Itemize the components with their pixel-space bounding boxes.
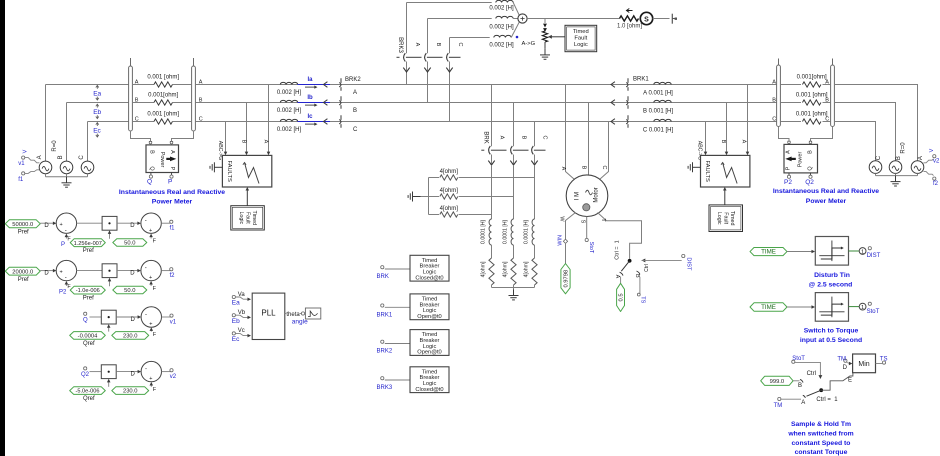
- svg-text:StoT: StoT: [867, 309, 880, 315]
- svg-text:1.256e-007: 1.256e-007: [74, 241, 102, 247]
- svg-text:Pref: Pref: [18, 229, 29, 235]
- svg-text:Switch to Torque: Switch to Torque: [804, 327, 859, 334]
- signal BRK1 to breaker logic: [381, 304, 384, 307]
- svg-text:D: D: [131, 317, 136, 323]
- output terminal f1: [161, 222, 170, 224]
- node label Eb: [96, 104, 98, 107]
- wire TIME to disturb comparator: [787, 251, 813, 253]
- svg-text:theta: theta: [286, 312, 300, 318]
- wire -1.0e oval to multiplier: [109, 281, 111, 287]
- divider circle (row2): [141, 260, 161, 280]
- bus line A (main): [195, 84, 777, 86]
- flow arrow down A (BRK): [488, 161, 494, 165]
- flow arrow down B (BRK): [510, 161, 516, 165]
- svg-text:Disturb Tin: Disturb Tin: [814, 272, 850, 279]
- svg-text:A: A: [741, 140, 747, 144]
- flow arrowhead A at BRK1: [611, 82, 615, 88]
- PLL input Vc: [232, 332, 235, 335]
- wire: node to fault branch and 1 ohm resistor: [527, 18, 619, 20]
- svg-text:Closed@t0: Closed@t0: [415, 275, 443, 281]
- switch junction dot (sample hold): [819, 388, 823, 392]
- output circle 1 (disturb): [849, 250, 860, 252]
- wire: BRK3 phase C vertical: [449, 38, 451, 54]
- ground (fault branch): [544, 49, 546, 55]
- node label TS (torque): [637, 293, 640, 296]
- svg-text:0.001 [ohm]: 0.001 [ohm]: [796, 112, 828, 118]
- svg-text:f2: f2: [170, 273, 176, 279]
- signal TM into Min: [844, 359, 847, 362]
- svg-text:B: B: [353, 108, 357, 114]
- wire multiplier to divider (row3): [116, 316, 138, 318]
- wire: right bar2 to power meter pin B: [811, 127, 833, 142]
- signal BRK to breaker logic: [381, 266, 384, 269]
- wire multiplier to divider (row4): [116, 371, 138, 373]
- svg-text:Vb: Vb: [238, 310, 246, 316]
- resistor 1.0 ohm: [620, 16, 639, 21]
- ground (left source): [66, 177, 68, 183]
- bus line B (main): [195, 102, 777, 104]
- wire: right FAULTS pin B from bus B: [726, 103, 728, 153]
- svg-text:Eb: Eb: [93, 109, 101, 116]
- svg-text:R=0: R=0: [52, 140, 58, 152]
- svg-text:BRK2: BRK2: [345, 77, 361, 83]
- contact B arc: [637, 271, 640, 274]
- input P into summer: [65, 236, 67, 238]
- multiplier block (row4): [101, 365, 116, 379]
- svg-text:B: B: [825, 98, 829, 104]
- resistor 4 ohm vertical C: [532, 258, 537, 285]
- svg-text:Sample & Hold Tm: Sample & Hold Tm: [791, 421, 851, 428]
- node label Ec: [96, 123, 98, 126]
- inductor 0.0001 H C (load): [532, 219, 534, 245]
- wire: timed fault logic to FAULTS (left): [246, 191, 248, 206]
- wire: BRK3 phase A vertical: [406, 3, 408, 54]
- svg-text:B: B: [521, 136, 527, 140]
- svg-text:Timed: Timed: [573, 29, 589, 35]
- wire: right bar1 to power meter pin A: [779, 127, 790, 142]
- svg-text:Q: Q: [149, 166, 155, 171]
- svg-text:TIME: TIME: [761, 304, 776, 311]
- svg-text:0.5: 0.5: [619, 293, 625, 301]
- breaker BRK1 phase C: [627, 115, 629, 120]
- svg-text:B: B: [135, 98, 139, 104]
- svg-text:4[ohm]: 4[ohm]: [503, 261, 509, 277]
- breaker BRK3 phase B: [425, 53, 427, 61]
- wire: motor phase C from bus C: [600, 122, 609, 180]
- wire: load branch A down to coil: [491, 165, 493, 219]
- constant TIME (disturb): [750, 248, 787, 256]
- flow arrow down C (BRK3): [446, 68, 452, 72]
- AC source B: [60, 161, 73, 174]
- svg-text:Min: Min: [858, 361, 869, 368]
- svg-text:Q: Q: [83, 317, 88, 323]
- wire: left bar to power meter pin B: [131, 131, 151, 142]
- comparator block (Disturb Tin): [815, 237, 848, 266]
- output terminal f2: [161, 270, 170, 272]
- wire: timed fault logic to FAULTS (right): [724, 191, 726, 205]
- signal BRK2 to breaker logic: [381, 340, 384, 343]
- wire: top A into summing node: [513, 3, 519, 16]
- bus wire B from source to transformer: [67, 102, 129, 104]
- svg-text:constant Torque: constant Torque: [795, 449, 848, 456]
- Min output TS: [876, 363, 883, 365]
- svg-text:Logic: Logic: [574, 42, 588, 48]
- resistor 0.001 ohm right row A: [802, 82, 820, 87]
- svg-text:Q2: Q2: [81, 372, 90, 378]
- breaker BRK phase C: [532, 146, 534, 154]
- svg-text:I M: I M: [575, 192, 581, 200]
- ground (4-ohm bank): [413, 196, 421, 198]
- switch lever to contact A: [621, 261, 629, 271]
- svg-text:A: A: [37, 155, 43, 159]
- svg-text:Fault: Fault: [723, 212, 729, 224]
- current label Ib: [298, 102, 331, 104]
- multiplier block (row2): [102, 264, 117, 278]
- probe StoT (motor): [585, 238, 588, 241]
- bus wire A from source to transformer: [46, 84, 129, 86]
- svg-text:C: C: [601, 166, 607, 170]
- svg-text:D: D: [130, 271, 135, 277]
- svg-text:0.002 [H]: 0.002 [H]: [489, 6, 514, 12]
- svg-text:A->G: A->G: [522, 41, 536, 47]
- fault arrester (arrow resistor): [543, 24, 547, 28]
- svg-text:B: B: [58, 155, 64, 159]
- svg-text:C: C: [825, 117, 829, 123]
- svg-text:BRK1: BRK1: [377, 312, 393, 318]
- svg-text:-: -: [145, 366, 147, 372]
- constant 999.0: [761, 376, 793, 385]
- input P2 into summer: [65, 284, 67, 286]
- svg-text:E: E: [848, 378, 852, 384]
- svg-text:BRK1: BRK1: [633, 76, 649, 82]
- svg-text:@ 2.5 second: @ 2.5 second: [809, 281, 853, 288]
- svg-text:1: 1: [861, 249, 864, 255]
- svg-text:W: W: [559, 216, 565, 222]
- breaker dash (BRK3): [397, 56, 400, 58]
- svg-text:-1.0e-006: -1.0e-006: [76, 288, 100, 294]
- PLL block: [252, 293, 285, 339]
- svg-text:Fault: Fault: [574, 36, 587, 42]
- wire: right bar to power meter pin A: [172, 131, 194, 142]
- svg-text:0.002 [H]: 0.002 [H]: [489, 24, 514, 30]
- svg-text:50.0: 50.0: [124, 288, 135, 294]
- svg-text:StoT: StoT: [792, 356, 805, 362]
- wire: motor phase B from bus B: [588, 103, 590, 176]
- wire multiplier to divider (row2): [117, 270, 138, 272]
- svg-text:Power Meter: Power Meter: [806, 198, 847, 205]
- svg-text:0.9798: 0.9798: [564, 270, 570, 288]
- svg-text:BRK: BRK: [377, 274, 389, 280]
- wire -0.0004 oval to multiplier: [108, 327, 110, 332]
- input terminal Q2: [84, 367, 87, 370]
- output terminal v2: [162, 371, 171, 373]
- svg-text:Ec: Ec: [93, 128, 101, 135]
- svg-text:input at 0.5 Second: input at 0.5 Second: [800, 337, 862, 344]
- svg-text:4[ohm]: 4[ohm]: [524, 261, 530, 277]
- svg-text:-: -: [145, 218, 147, 224]
- resistor 0.001 ohm right row C: [802, 119, 820, 124]
- svg-text:Q2: Q2: [805, 179, 814, 186]
- bus line C (main): [195, 121, 777, 123]
- svg-text:Power Meter: Power Meter: [152, 199, 193, 206]
- svg-text:P2: P2: [784, 179, 792, 186]
- breaker BRK2 phase B: [340, 96, 342, 101]
- svg-text:50.0: 50.0: [124, 241, 135, 247]
- svg-text:0.001[ohm]: 0.001[ohm]: [148, 93, 178, 99]
- bus bar stub (right xfmr): [778, 59, 780, 66]
- node label StoT (output): [868, 302, 871, 305]
- svg-text:B: B: [772, 98, 776, 104]
- svg-text:-5.0e-006: -5.0e-006: [76, 389, 100, 395]
- svg-text:A: A: [263, 140, 269, 144]
- svg-text:Ic: Ic: [307, 114, 313, 120]
- resistor 4 ohm vertical B: [511, 258, 516, 285]
- Timed Fault Logic block (right): [709, 205, 743, 232]
- AC source C: [81, 161, 94, 174]
- svg-text:Vc: Vc: [238, 328, 245, 334]
- svg-text:D: D: [843, 365, 848, 371]
- wire: load branch C from bus: [534, 122, 536, 147]
- wire: top B into summing node: [513, 18, 518, 20]
- resistor 0.001 ohm row 2: [154, 100, 172, 105]
- wire TIME to StoT comparator: [787, 306, 813, 308]
- wire: resistor A to common: [491, 285, 493, 287]
- comparator block (Switch to Torque): [815, 293, 848, 322]
- terminal symbol: [671, 14, 673, 24]
- svg-text:0.002 [H]: 0.002 [H]: [277, 127, 302, 133]
- power meter output stems Q and P: [150, 173, 152, 176]
- wire: top feeder phase C: [450, 37, 490, 39]
- svg-text:999.0: 999.0: [770, 379, 785, 385]
- inductor 0.002 H top B: [496, 16, 513, 18]
- breaker BRK phase B: [511, 146, 513, 154]
- svg-text:B 0.001 [H]: B 0.001 [H]: [643, 109, 673, 115]
- svg-text:1.0 [ohm]: 1.0 [ohm]: [617, 24, 642, 30]
- svg-text:50000.0: 50000.0: [12, 222, 33, 228]
- wire: top feeder phase A: [407, 2, 492, 4]
- wire 1.256e oval to multiplier: [109, 233, 111, 239]
- svg-text:20000.0: 20000.0: [12, 269, 33, 275]
- constant 230.0 (row3): [112, 332, 149, 340]
- constant 20000.0 Pref: [5, 267, 40, 275]
- svg-text:C: C: [772, 117, 776, 123]
- breaker BRK phase A: [489, 146, 491, 154]
- multiplier block (row3): [101, 310, 116, 324]
- node label Ea: [96, 85, 98, 88]
- svg-text:Timed: Timed: [729, 211, 735, 226]
- svg-text:D: D: [44, 223, 49, 229]
- svg-text:C: C: [876, 155, 882, 160]
- svg-text:A: A: [414, 43, 420, 47]
- wire: top C into summing node: [511, 22, 519, 38]
- svg-text:Instantaneous Real and Reactiv: Instantaneous Real and Reactive: [773, 188, 879, 195]
- wire: contact A to constant 0.5: [620, 277, 622, 284]
- arrow above 1 ohm resistor: [627, 10, 633, 12]
- svg-text:Open@t0: Open@t0: [417, 314, 441, 320]
- svg-text:+: +: [149, 322, 152, 328]
- power meter output stems P2 and Q2: [788, 173, 790, 176]
- svg-text:-: -: [145, 265, 147, 271]
- wire: source A to bus: [45, 85, 47, 162]
- flow arrowhead C at BRK1: [611, 119, 615, 125]
- breaker BRK2 phase A: [340, 78, 342, 83]
- svg-text:0.0001 [H]: 0.0001 [H]: [503, 219, 509, 243]
- wire: timed fault logic to fault branch: [551, 36, 565, 38]
- svg-text:-0.0004: -0.0004: [78, 334, 98, 340]
- svg-text:Power: Power: [159, 152, 165, 168]
- three-phase bus bar (right xfmr): [831, 65, 835, 127]
- svg-text:0.0001 [H]: 0.0001 [H]: [481, 219, 487, 243]
- wire: coil to resistor B: [513, 245, 515, 258]
- breaker dash (BRK): [481, 149, 484, 151]
- neutral node circle: [518, 14, 527, 23]
- output terminal v1: [162, 316, 171, 318]
- svg-text:FAULTS: FAULTS: [704, 160, 710, 182]
- wire: motor phase A from bus A: [566, 85, 575, 180]
- AC source A: [39, 161, 52, 174]
- signal TM (sample hold): [778, 397, 781, 400]
- three-phase bus bar: [192, 66, 196, 131]
- input 230.0 into divider (row3): [150, 330, 152, 331]
- svg-text:Fault: Fault: [245, 212, 251, 224]
- svg-text:TM: TM: [837, 356, 846, 362]
- constant 50.0 (row2): [113, 286, 147, 294]
- control arrow into switch: [642, 258, 646, 262]
- divider circle (row1): [141, 213, 161, 233]
- wire summer to multiplier: [77, 222, 103, 224]
- wire: right xfmr winding row A: [781, 84, 801, 86]
- wire multiplier to divider: [117, 222, 138, 224]
- voltmeter probe v2: [933, 155, 936, 158]
- svg-text:TS: TS: [880, 356, 888, 362]
- svg-text:-: -: [145, 312, 147, 318]
- svg-text:A: A: [825, 80, 829, 86]
- constant -1.0e-006 Pref: [70, 286, 105, 294]
- inductor 0.001 H phase B (right): [654, 100, 671, 102]
- ground (right source): [895, 176, 897, 182]
- flow arrow down A (BRK3): [403, 68, 409, 72]
- svg-text:Ec: Ec: [232, 336, 240, 343]
- wire: bus C to right source: [834, 122, 875, 161]
- breaker BRK2 phase C: [340, 115, 342, 120]
- svg-text:StoT: StoT: [588, 242, 594, 254]
- source circle S: [640, 12, 652, 24]
- constant 50.0 (row1): [113, 239, 147, 247]
- wire: FAULTS pin A from bus A: [268, 85, 270, 153]
- svg-text:C: C: [457, 43, 463, 47]
- Timed Breaker Logic block (BRK2 Open@t0): [410, 330, 449, 356]
- power meter P/Q block (left): [146, 145, 179, 173]
- svg-text:4[ohm]: 4[ohm]: [481, 261, 487, 277]
- inductor 0.002 H phase C (left of BRK2): [280, 119, 297, 121]
- PLL input Vb: [232, 314, 235, 317]
- wire: FAULTS pin C from bus C: [225, 122, 227, 153]
- contact B (sample hold): [800, 379, 803, 382]
- svg-text:C: C: [135, 117, 139, 123]
- wire: 4 ohm row to load branch: [459, 177, 535, 179]
- svg-text:A 0.001 [H]: A 0.001 [H]: [643, 91, 673, 97]
- wire: motor S terminal: [586, 217, 588, 239]
- svg-text:C 0.001 [H]: C 0.001 [H]: [643, 128, 674, 134]
- wire: source C to bus: [87, 122, 89, 162]
- svg-text:Power: Power: [797, 152, 803, 168]
- wire: load branch A from bus: [491, 85, 493, 147]
- wire StoT to switch control: [795, 362, 820, 376]
- Timed Fault Logic block (top): [565, 25, 597, 51]
- wire Q to multiplier: [90, 316, 102, 318]
- contact A arc: [620, 272, 623, 275]
- svg-text:B: B: [896, 156, 902, 160]
- AC source A (right): [911, 161, 924, 174]
- svg-text:230.0: 230.0: [123, 334, 138, 340]
- flow arrow down C (BRK): [531, 161, 537, 165]
- svg-text:DIST: DIST: [867, 253, 881, 259]
- wire: right xfmr winding row C: [781, 121, 801, 123]
- wire: 4-ohm bank left bracket: [428, 178, 430, 215]
- current label Ic: [298, 121, 331, 123]
- svg-text:TS: TS: [639, 296, 645, 303]
- svg-text:Qref: Qref: [83, 341, 95, 347]
- svg-text:WIN: WIN: [558, 235, 564, 246]
- svg-text:when switched from: when switched from: [787, 430, 853, 437]
- svg-text:A: A: [353, 90, 357, 96]
- svg-text:f1: f1: [18, 177, 24, 183]
- measure arrow right A: [305, 86, 316, 88]
- FAULTS block (left): [222, 155, 271, 187]
- svg-text:0.001 [ohm]: 0.001 [ohm]: [147, 75, 179, 81]
- svg-text:0.0001 [H]: 0.0001 [H]: [524, 219, 530, 243]
- wire: top feeder phase B: [428, 18, 492, 20]
- inductor 0.002 H phase B (left of BRK2): [280, 100, 297, 102]
- constant 0.5 (torque): [617, 283, 625, 311]
- bus bar stub: [130, 58, 132, 66]
- AC source C (right): [869, 161, 882, 174]
- svg-text:P2: P2: [59, 289, 67, 295]
- svg-text:4[ohm]: 4[ohm]: [440, 188, 459, 194]
- signal BRK3 to breaker logic: [381, 377, 384, 380]
- svg-text:0.001[ohm]: 0.001[ohm]: [797, 75, 827, 81]
- wire switch output to Min: [821, 373, 853, 391]
- constant 1.256e-007 Pref: [70, 239, 105, 247]
- wire Q2 to multiplier: [90, 371, 102, 373]
- wire to summer: [40, 222, 53, 224]
- svg-text:BRK2: BRK2: [377, 349, 393, 355]
- AC source B (right): [889, 161, 902, 174]
- svg-text:Ctrl = 1: Ctrl = 1: [614, 240, 620, 259]
- svg-text:Ea: Ea: [93, 90, 101, 97]
- wire: right FAULTS pin A from bus A: [747, 85, 749, 153]
- monitor dot (A->G): [516, 36, 519, 39]
- Timed Breaker Logic block (BRK1 Open@t0): [410, 294, 449, 320]
- wire -5.0e oval to multiplier: [108, 382, 110, 387]
- svg-text:+: +: [149, 275, 152, 281]
- ground (left faults): [214, 166, 222, 168]
- Timed Breaker Logic block (BRK Closed@t0): [410, 255, 449, 281]
- svg-text:4[ohm]: 4[ohm]: [440, 169, 459, 175]
- wire: bus A to right source: [834, 85, 917, 161]
- svg-text:FAULTS: FAULTS: [226, 160, 232, 182]
- node label DIST (switch control): [682, 254, 685, 257]
- wire: transformer winding row 3: [132, 121, 154, 123]
- wire: coil to resistor A: [491, 245, 493, 258]
- wire: right source common bottom: [875, 173, 877, 175]
- svg-text:Eb: Eb: [232, 318, 240, 325]
- svg-text:Pref: Pref: [83, 296, 94, 302]
- frequency probe f1: [22, 172, 25, 175]
- svg-text:A: A: [135, 80, 139, 86]
- wire: right xfmr winding row B: [781, 102, 801, 104]
- wire: contact B to TS: [639, 277, 641, 294]
